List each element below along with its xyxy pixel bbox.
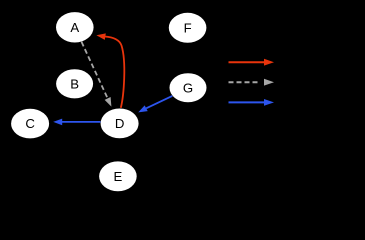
svg-text:B: B [70,76,79,91]
edge G->D (blue) [137,96,173,115]
edge D->C (blue) [53,119,100,126]
node G [170,73,207,102]
svg-text:F: F [184,20,192,35]
svg-text:A: A [70,20,79,35]
legend blue arrow [229,99,275,106]
legend gray dashed arrow [229,79,275,86]
edge A->D (gray dashed) [82,42,115,108]
edge D->A (red curved) [96,32,124,108]
svg-text:D: D [115,116,125,131]
node C [11,109,49,139]
svg-text:C: C [25,116,35,131]
svg-text:E: E [114,169,123,184]
node B [56,69,93,98]
legend red arrow [229,59,275,66]
svg-text:G: G [183,80,193,95]
node E [99,161,137,191]
node D [101,109,139,139]
node F [169,13,207,43]
node A [56,12,94,42]
